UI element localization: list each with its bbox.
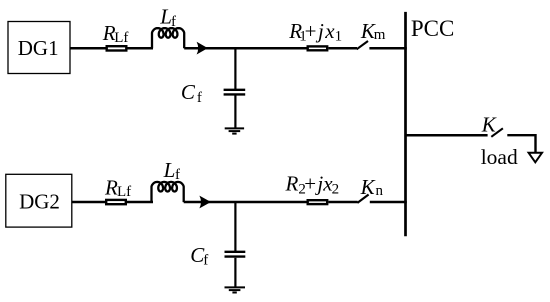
svg-text:+: + [304,172,316,196]
svg-text:L: L [159,5,172,29]
svg-text:f: f [171,14,176,30]
ground (DG2 filter) [225,287,246,292]
svg-text:K: K [481,112,497,136]
wire DG1 to RLf [70,47,106,50]
wire Lf to junction (DG2) [184,201,307,204]
wire capacitor drop (DG2) [234,202,236,251]
switch K blade [491,128,503,137]
label Lf (DG1 branch) [159,5,176,30]
svg-text:load: load [481,145,518,169]
svg-text:Lf: Lf [117,184,131,200]
wire PCC bus to switch K (load feeder) [406,134,488,137]
wire RLf to Lf [128,47,154,50]
ground (DG1 filter) [225,128,244,133]
svg-text:R: R [104,175,118,199]
svg-text:Lf: Lf [114,30,128,46]
switch Kn blade [357,195,368,203]
svg-text:PCC: PCC [411,16,454,41]
DG1 box [8,22,70,74]
label Kn [360,175,384,199]
svg-text:f: f [197,90,202,106]
arrow (DG1 output current) [197,42,208,55]
wire R1 to switch Km [328,47,357,50]
svg-text:n: n [376,183,384,199]
bus PCC [404,12,407,236]
load arrow (hollow triangle) [529,153,542,163]
label Lf (DG2 branch) [163,158,180,183]
label R2+jx2 [285,172,340,198]
wire Lf to junction [184,47,306,50]
svg-text:1: 1 [335,29,343,45]
wire capacitor to ground (DG1) [234,96,236,128]
svg-text:DG2: DG2 [19,190,60,214]
inductor Lf (DG2 branch) [152,182,184,202]
label R1+jx1 [288,19,342,45]
DG2 box [6,174,72,227]
resistor RLf (DG1 branch) [107,46,127,50]
label RLf (DG1 branch) [102,21,129,46]
label Cf (DG1 branch) [181,80,202,106]
wire switch Kn to PCC bus [370,201,407,204]
svg-text:C: C [181,80,196,104]
arrow (DG2 output current) [199,196,211,209]
svg-text:L: L [163,158,176,182]
svg-text:2: 2 [332,181,340,197]
capacitor Cf (DG2 branch) [225,252,246,257]
wire capacitor to ground (DG2) [234,258,236,287]
svg-text:f: f [203,253,208,269]
resistor RLf (DG2 branch) [106,200,126,204]
capacitor Cf (DG1 branch) [224,90,246,95]
wire switch Km to PCC bus [369,47,406,50]
svg-text:DG1: DG1 [18,36,59,60]
svg-text:R: R [285,172,299,196]
resistor R2+jx2 (line impedance) [308,200,328,204]
svg-text:+: + [305,19,317,43]
label Km [360,19,386,43]
svg-text:K: K [360,175,376,199]
label Cf (DG2 branch) [190,243,208,269]
wire switch K to load corner [507,135,535,152]
wire RLf to Lf (DG2) [127,201,153,204]
wire capacitor drop (DG1) [234,48,236,89]
svg-text:m: m [374,27,386,43]
resistor R1+jx1 (line impedance) [308,46,328,50]
label RLf (DG2 branch) [104,175,131,200]
switch Km blade [357,41,368,49]
wire R2 to switch Kn [328,201,357,204]
svg-text:f: f [175,167,180,183]
inductor Lf (DG1 branch) [152,28,184,48]
wire DG2 to RLf [72,201,106,204]
